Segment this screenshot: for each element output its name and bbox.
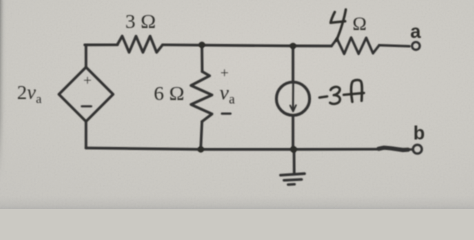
wire: thin lead into terminal b circle (406, 148, 413, 151)
svg-text:a: a (410, 22, 421, 43)
ground bar 1 (281, 174, 305, 176)
current source I1 circle (276, 82, 309, 115)
bottom edge shading (0, 196, 474, 209)
svg-text:b: b (413, 123, 425, 144)
current source arrowhead (290, 105, 296, 111)
wire: vertical stub below dependent source (85, 121, 88, 148)
current source arrow shaft (292, 83, 294, 111)
junction dot top of 6ohm branch (199, 42, 205, 48)
left photo edge shading (0, 0, 7, 209)
ground stub (293, 149, 296, 172)
wire: current source bottom stub (292, 115, 295, 149)
ground bar 2 (284, 178, 302, 182)
terminal a circle (412, 42, 420, 50)
ground bar 3 (288, 183, 295, 186)
minus sign inside diamond (82, 105, 91, 107)
handwritten 3 of -3A (330, 87, 340, 104)
wire: bottom wire (86, 148, 378, 149)
wire: top-left vertical stub above dependent source (85, 45, 88, 68)
handwritten minus of -3A (319, 96, 327, 97)
junction dot top of current source branch (290, 43, 296, 49)
junction dot bottom of 6ohm branch (198, 146, 204, 152)
resistor R 3ohm zigzag (117, 36, 162, 52)
wire: current source top stub (292, 46, 295, 82)
handwritten A of -3A (351, 80, 362, 102)
handwritten 4 of 4ohm (331, 12, 346, 23)
wire: 6ohm branch bottom stub (201, 122, 202, 150)
resistor R 6ohm zigzag (191, 72, 212, 122)
junction dot bottom of current source branch (290, 146, 297, 153)
svg-text:+: + (220, 66, 228, 82)
resistor R 4ohm zigzag (hand drawn) (332, 38, 380, 54)
wire: top wire right segment to terminal a (379, 45, 409, 46)
wire: top wire left segment (85, 43, 118, 46)
wire: 6ohm branch top stub (201, 45, 204, 72)
terminal b circle (413, 145, 422, 154)
svg-text:+: + (83, 73, 91, 89)
dependent source U1 diamond (2va) (59, 67, 113, 121)
svg-text:6 Ω: 6 Ω (154, 83, 185, 105)
svg-text:3 Ω: 3 Ω (125, 11, 156, 33)
wire: top wire middle segment (163, 45, 332, 46)
minus sign below va label (222, 112, 231, 114)
wire: hand-drawn thick segment to terminal b (379, 148, 409, 150)
svg-text:Ω: Ω (353, 14, 367, 35)
